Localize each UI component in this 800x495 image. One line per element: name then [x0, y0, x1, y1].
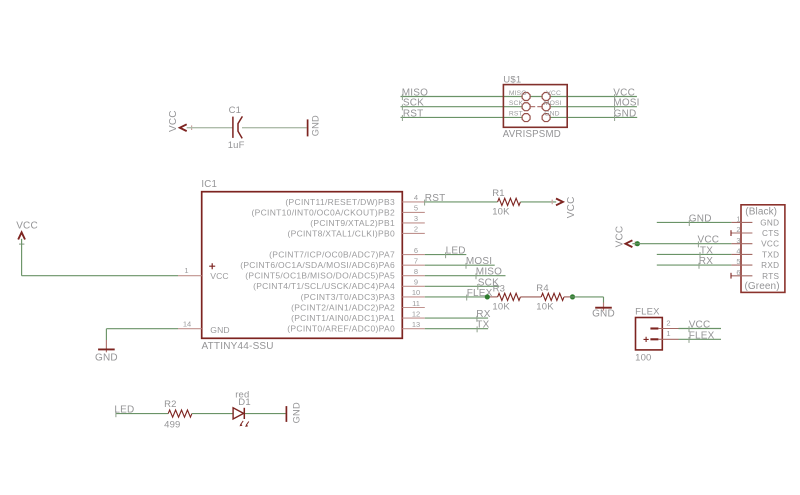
svg-text:RX: RX	[699, 256, 713, 267]
wire GND net to FTDI pin 1	[657, 221, 732, 223]
svg-text:1: 1	[666, 329, 670, 338]
pin 1 GND stub (FTDI)	[731, 221, 752, 223]
pin 2 CTS stub (FTDI)	[731, 232, 752, 234]
svg-text:499: 499	[164, 420, 180, 431]
wire U$1 to GND net	[550, 116, 637, 118]
svg-text:5: 5	[736, 257, 740, 266]
svg-text:(PCINT10/INT0/OC0A/CKOUT)PB2: (PCINT10/INT0/OC0A/CKOUT)PB2	[252, 207, 395, 217]
wire LED net (pin 6)	[425, 254, 467, 256]
wire D1 to GND	[245, 413, 286, 415]
svg-text:GND: GND	[592, 308, 615, 319]
svg-text:GND: GND	[689, 213, 712, 224]
svg-text:TX: TX	[700, 245, 713, 256]
pin 14 GND stub	[178, 328, 202, 330]
wire VCC to C1	[187, 127, 233, 129]
svg-text:2: 2	[414, 225, 418, 234]
wire MOSI net (pin 7)	[425, 264, 495, 266]
connector FTDI body	[741, 205, 785, 293]
svg-text:C1: C1	[229, 105, 242, 116]
pin 8 PA5 stub	[402, 275, 425, 277]
pin 2 PB0 stub	[402, 232, 425, 234]
svg-text:MISO: MISO	[509, 90, 527, 97]
svg-text:FLEX: FLEX	[635, 306, 660, 317]
pad 1 (FLEX)	[650, 338, 658, 340]
svg-text:8: 8	[414, 267, 418, 276]
svg-text:TX: TX	[476, 320, 489, 331]
connector U$1 AVRISPSMD body	[503, 85, 567, 128]
svg-text:LED: LED	[446, 246, 466, 257]
svg-text:9: 9	[414, 278, 418, 287]
svg-text:RXD: RXD	[761, 261, 779, 270]
wire MISO net (pin 8)	[425, 275, 506, 277]
wire LED net to R2	[116, 413, 169, 415]
vcc symbol VCC (after R1)	[551, 200, 553, 205]
svg-text:7: 7	[414, 257, 418, 266]
svg-text:SCK: SCK	[509, 100, 524, 107]
svg-text:VCC: VCC	[566, 196, 577, 218]
svg-text:(PCINT5/OC1B/MISO/DO/ADC5)PA5: (PCINT5/OC1B/MISO/DO/ADC5)PA5	[245, 271, 395, 281]
pin 6 RTS stub (FTDI)	[731, 275, 752, 277]
svg-text:3: 3	[736, 236, 740, 245]
svg-text:R2: R2	[164, 399, 177, 410]
svg-text:5: 5	[414, 204, 418, 213]
svg-text:(PCINT1/AIN0/ADC1)PA1: (PCINT1/AIN0/ADC1)PA1	[291, 313, 395, 323]
ground (below pin 14)	[105, 340, 107, 352]
pin 4 TXD stub (FTDI)	[731, 253, 752, 255]
svg-text:6: 6	[736, 268, 740, 277]
pin name VCC (IC1)	[209, 263, 215, 269]
wire U$1 to VCC net	[530, 96, 637, 98]
svg-text:(PCINT2/AIN1/ADC2)PA2: (PCINT2/AIN1/ADC2)PA2	[291, 302, 395, 312]
wire MISO net to U$1	[401, 96, 523, 98]
wire RST net (pin 4)	[425, 201, 498, 203]
svg-text:RST: RST	[425, 193, 446, 204]
wire TX net to FTDI pin 4	[657, 253, 732, 255]
svg-text:GND: GND	[291, 402, 301, 423]
wire RX net to FTDI pin 5	[657, 264, 732, 266]
wire R1 to VCC	[520, 201, 556, 203]
svg-text:10K: 10K	[492, 206, 510, 217]
wire R2 to D1	[192, 413, 233, 415]
svg-text:GND: GND	[614, 108, 637, 119]
wire SCK net (pin 9)	[425, 285, 500, 287]
svg-text:ATTINY44-SSU: ATTINY44-SSU	[202, 341, 274, 352]
wire U$1 to MOSI net	[550, 106, 637, 108]
svg-text:(PCINT4/T1/SCL/USCK/ADC4)PA4: (PCINT4/T1/SCL/USCK/ADC4)PA4	[253, 281, 395, 291]
svg-text:10K: 10K	[492, 301, 510, 312]
svg-text:AVRISPSMD: AVRISPSMD	[503, 129, 561, 140]
capacitor C1	[232, 117, 234, 138]
pin 5 RXD stub (FTDI)	[731, 264, 752, 266]
pin pads U$1	[530, 106, 535, 108]
resistor R1	[498, 198, 521, 205]
svg-text:MISO: MISO	[476, 267, 502, 278]
svg-text:(PCINT0/AREF/ADC0)PA0: (PCINT0/AREF/ADC0)PA0	[287, 324, 395, 334]
pin 4 PB3 stub	[402, 201, 425, 203]
pin 9 PA4 stub	[402, 285, 425, 287]
polarity mark +	[644, 337, 649, 342]
resistor R4	[541, 293, 564, 300]
svg-text:GND: GND	[95, 352, 118, 363]
svg-text:VCC: VCC	[689, 320, 711, 331]
svg-text:CTS: CTS	[762, 229, 780, 238]
wire FLEX net (FLEX pin 1)	[679, 338, 722, 340]
svg-text:MOSI: MOSI	[544, 100, 562, 107]
pin 5 PB2 stub	[402, 211, 425, 213]
svg-text:R1: R1	[492, 188, 505, 199]
pin 11 PA2 stub	[402, 307, 425, 309]
pin 3 VCC stub (FTDI)	[731, 243, 752, 245]
resistor R2	[168, 410, 192, 417]
svg-text:R4: R4	[536, 283, 549, 294]
svg-text:(PCINT9/XTAL2)PB1: (PCINT9/XTAL2)PB1	[310, 218, 395, 228]
svg-text:2: 2	[666, 318, 670, 327]
svg-text:10K: 10K	[536, 301, 554, 312]
svg-text:VCC: VCC	[614, 226, 625, 248]
wire TX net (pin 13)	[425, 328, 488, 330]
pin 2 stub (FLEX)	[658, 328, 678, 330]
svg-text:VCC: VCC	[546, 90, 561, 97]
wire FLEX to R3	[490, 296, 498, 298]
connector FLEX body	[636, 318, 663, 350]
pin 6 PA7 stub	[402, 254, 425, 256]
svg-text:1: 1	[736, 215, 740, 224]
svg-text:RST: RST	[509, 110, 523, 117]
svg-text:VCC: VCC	[210, 271, 228, 281]
wire R4 to junction	[564, 296, 570, 298]
pin 13 PA0 stub	[402, 328, 425, 330]
svg-text:13: 13	[412, 320, 420, 329]
resistor R3	[498, 293, 521, 300]
svg-text:MOSI: MOSI	[466, 256, 492, 267]
ic IC1 ATTINY44-SSU body	[202, 192, 403, 339]
svg-text:(Green): (Green)	[745, 281, 780, 292]
svg-text:VCC: VCC	[698, 235, 720, 246]
svg-text:RST: RST	[403, 108, 424, 119]
wire junction to ground	[570, 296, 604, 298]
svg-text:VCC: VCC	[16, 221, 38, 232]
led D1	[233, 408, 244, 419]
svg-text:D1: D1	[238, 397, 251, 408]
pin 1 stub (FLEX)	[658, 338, 678, 340]
svg-text:RX: RX	[476, 309, 490, 320]
svg-text:(PCINT8/XTAL1/CLKI)PB0: (PCINT8/XTAL1/CLKI)PB0	[287, 228, 395, 238]
wire SCK net to U$1	[401, 106, 523, 108]
svg-text:RTS: RTS	[762, 272, 779, 281]
svg-text:1: 1	[184, 266, 188, 275]
svg-text:VCC: VCC	[168, 110, 179, 132]
svg-text:10: 10	[412, 288, 420, 297]
ground (below R4)	[603, 303, 605, 311]
svg-text:(Black): (Black)	[745, 207, 777, 218]
svg-text:LED: LED	[114, 405, 134, 416]
pin 12 PA1 stub	[402, 317, 425, 319]
svg-text:GND: GND	[210, 325, 229, 335]
svg-text:(PCINT3/T0/ADC3)PA3: (PCINT3/T0/ADC3)PA3	[301, 292, 395, 302]
svg-text:3: 3	[414, 214, 418, 223]
pin 7 PA6 stub	[402, 264, 425, 266]
no-connect cross CTS	[730, 230, 732, 236]
wire RST net to U$1	[401, 116, 523, 118]
wire R3 to R4	[520, 296, 541, 298]
svg-text:(PCINT7/ICP/OC0B/ADC7)PA7: (PCINT7/ICP/OC0B/ADC7)PA7	[269, 250, 395, 260]
svg-text:U$1: U$1	[503, 75, 521, 86]
no-connect cross RTS	[730, 273, 732, 279]
wire VCC net (FLEX pin 2)	[679, 328, 722, 330]
svg-text:FLEX: FLEX	[689, 330, 715, 341]
svg-text:MOSI: MOSI	[613, 98, 639, 109]
wire down to ground	[105, 329, 107, 340]
wire VCC down	[21, 239, 23, 276]
svg-text:R3: R3	[493, 283, 506, 294]
wire IC1 pin 14 to GND	[106, 328, 178, 330]
svg-text:12: 12	[412, 309, 420, 318]
svg-text:14: 14	[183, 319, 191, 328]
svg-text:GND: GND	[760, 218, 779, 227]
pad 2 (FLEX)	[650, 327, 658, 329]
svg-text:TXD: TXD	[762, 250, 779, 259]
svg-text:SCK: SCK	[403, 98, 424, 109]
svg-text:(PCINT6/OC1A/SDA/MOSI/ADC6)PA6: (PCINT6/OC1A/SDA/MOSI/ADC6)PA6	[240, 260, 395, 270]
svg-text:4: 4	[414, 193, 418, 202]
svg-text:IC1: IC1	[201, 179, 217, 190]
pin 3 PB1 stub	[402, 222, 425, 224]
wire FLEX net (pin 10)	[425, 296, 490, 298]
svg-text:11: 11	[412, 299, 420, 308]
svg-text:(PCINT11/RESET/DW)PB3: (PCINT11/RESET/DW)PB3	[285, 197, 395, 207]
svg-text:VCC: VCC	[761, 240, 779, 249]
svg-text:GND: GND	[310, 115, 320, 136]
ground (right of D1)	[285, 406, 287, 422]
ground (right of C1)	[307, 119, 309, 136]
svg-text:6: 6	[414, 246, 418, 255]
junction node (VCC/FTDI)	[635, 241, 640, 246]
pin 1 VCC stub	[178, 275, 202, 277]
wire VCC to IC1 pin 1	[22, 275, 178, 277]
svg-text:4: 4	[736, 247, 740, 256]
svg-text:GND: GND	[544, 110, 559, 117]
svg-text:1uF: 1uF	[228, 140, 245, 151]
junction node (FLEX/R3)	[485, 294, 490, 299]
svg-text:100: 100	[635, 353, 651, 364]
svg-text:2: 2	[736, 225, 740, 234]
wire C1 to GND	[242, 127, 307, 129]
pin 10 PA3 stub	[402, 296, 425, 298]
wire VCC to FTDI pin 3	[632, 243, 731, 245]
junction node (R4/GND)	[570, 294, 575, 299]
wire RX net (pin 12)	[425, 317, 488, 319]
